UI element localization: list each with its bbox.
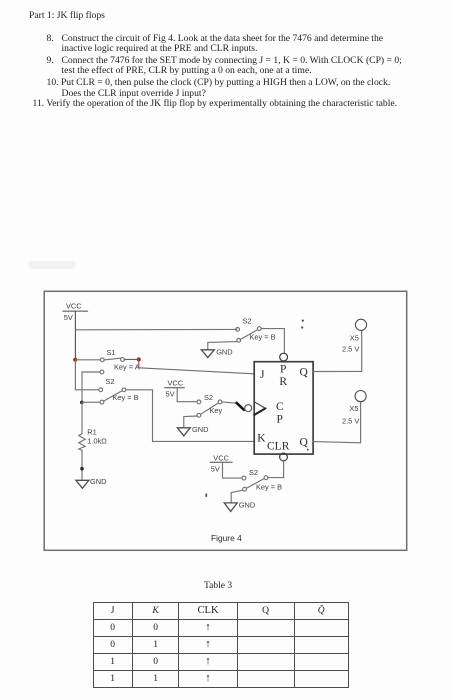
wire VCC1 stem xyxy=(74,311,76,360)
wire VCC top rail xyxy=(75,328,237,330)
svg-text:GND: GND xyxy=(216,347,232,356)
wire S1 to J input xyxy=(139,359,254,373)
resistor R1 1.0k xyxy=(79,402,107,479)
svg-text:S2: S2 xyxy=(243,317,252,326)
caption Figure 4 xyxy=(211,533,242,543)
wire Q output to lamp X5a xyxy=(313,330,362,371)
svg-text:J: J xyxy=(260,369,265,381)
ground GND1 xyxy=(76,477,107,488)
svg-text:Q: Q xyxy=(300,436,309,448)
wire CLR switch throw to ground xyxy=(231,490,243,502)
svg-text:GND: GND xyxy=(90,477,106,486)
wire Qbar output to lamp X5b xyxy=(313,402,361,443)
node junction above GND xyxy=(80,467,84,471)
svg-text:GND: GND xyxy=(192,425,208,434)
switch S2 Key=B (K input) xyxy=(82,377,139,404)
switch S1 Key=A xyxy=(75,348,139,371)
svg-text:VCC: VCC xyxy=(213,453,229,462)
op: IC U1 7476 JK flip-flop body xyxy=(254,362,313,454)
wire PRE switch to PRE pin xyxy=(261,329,284,354)
svg-text:Key = B: Key = B xyxy=(256,483,282,492)
svg-text:Q: Q xyxy=(300,367,309,379)
ground GND4 xyxy=(224,500,255,511)
ground GND3 xyxy=(177,425,208,436)
power source VCC3 5V xyxy=(210,453,232,473)
switch S2 Key (CP) xyxy=(197,393,223,417)
ground GND2 xyxy=(201,347,232,357)
svg-text:P: P xyxy=(280,364,286,376)
svg-text:P: P xyxy=(277,413,283,425)
svg-text:C: C xyxy=(276,401,284,413)
wire PRE switch throw to ground xyxy=(208,342,237,350)
lamp X5 (Qbar) xyxy=(342,391,366,426)
wire S2 to K input xyxy=(126,390,254,442)
svg-text:S2: S2 xyxy=(106,377,115,386)
svg-text:GND: GND xyxy=(239,500,255,509)
wire VCC3 to S2 xyxy=(223,462,243,478)
switch S2 Key=B (CLR) xyxy=(242,468,284,492)
node junction S1 right (red) xyxy=(137,357,141,361)
node junction pulldown xyxy=(80,401,84,405)
svg-text:K: K xyxy=(257,432,266,444)
pin CLR bubble xyxy=(280,453,288,461)
wire S1 lower throw to pulldown xyxy=(82,370,104,402)
svg-text:VCC: VCC xyxy=(168,378,184,387)
switch S2 Key=B (PRE) xyxy=(236,317,276,343)
wire VCC1 down to S2 xyxy=(75,360,98,390)
svg-text:S2: S2 xyxy=(204,393,213,402)
svg-text:CLR: CLR xyxy=(267,440,290,452)
figure frame xyxy=(44,291,407,550)
scan artifact colon xyxy=(206,320,309,497)
svg-text:X5: X5 xyxy=(349,404,358,413)
pin clock bubble and chevron xyxy=(245,402,266,415)
svg-text:5V: 5V xyxy=(166,390,175,399)
svg-text:Key = A: Key = A xyxy=(114,362,140,371)
svg-text:5V: 5V xyxy=(211,464,220,473)
wire CP switch to clock pin xyxy=(222,402,244,410)
lamp X5 (Q) xyxy=(342,319,367,353)
svg-text:5V: 5V xyxy=(64,313,73,322)
svg-text:VCC: VCC xyxy=(66,301,82,310)
svg-text:X5: X5 xyxy=(350,333,359,342)
wire CLR pin down to switch xyxy=(283,460,285,477)
svg-text:S1: S1 xyxy=(107,348,116,357)
svg-text:2.5 V: 2.5 V xyxy=(342,345,359,354)
svg-text:Key = B: Key = B xyxy=(250,333,276,342)
power source VCC2 5V xyxy=(165,378,185,398)
svg-text:Key: Key xyxy=(210,406,223,415)
svg-text:Figure 4: Figure 4 xyxy=(211,533,242,543)
svg-text:R1: R1 xyxy=(87,428,96,437)
svg-text:S2: S2 xyxy=(249,468,258,477)
svg-text:R: R xyxy=(279,376,287,388)
power source VCC1 5V xyxy=(63,301,88,322)
wire CP switch throw to ground xyxy=(184,416,197,428)
node junction at VCC/S1 xyxy=(73,358,77,362)
svg-text:1.0kΩ: 1.0kΩ xyxy=(87,436,107,445)
pin PRE bubble xyxy=(280,353,288,361)
svg-text:Key = B: Key = B xyxy=(113,393,139,402)
svg-text:2.5 V: 2.5 V xyxy=(342,417,359,426)
wire VCC2 to S2 xyxy=(177,388,197,402)
